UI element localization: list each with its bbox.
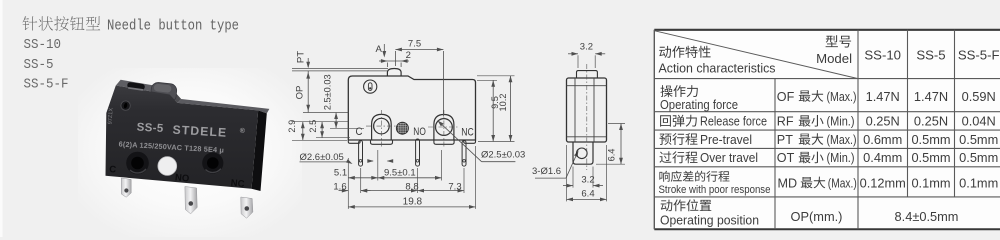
svg-text:3.2: 3.2	[581, 175, 594, 186]
extension lines bottom	[347, 158, 349, 209]
svg-text:97Z1X: 97Z1X	[108, 108, 115, 125]
svg-text:1.47N: 1.47N	[866, 89, 900, 104]
svg-text:SS-10: SS-10	[864, 47, 901, 62]
plunger button dome	[387, 69, 401, 76]
svg-text:Ø2.5±0.03: Ø2.5±0.03	[481, 150, 525, 161]
left mounting hole boss	[372, 114, 392, 140]
svg-text:6.4: 6.4	[607, 149, 617, 162]
svg-text:(Max.): (Max.)	[828, 176, 857, 190]
svg-text:NC: NC	[461, 126, 474, 138]
svg-text:0.5mm: 0.5mm	[959, 150, 998, 165]
svg-text:9.5±0.1: 9.5±0.1	[384, 167, 416, 178]
svg-text:(Max.): (Max.)	[827, 133, 857, 147]
svg-text:0.1mm: 0.1mm	[959, 175, 998, 190]
row 动作位置 Operating position	[661, 199, 712, 211]
svg-text:OF: OF	[777, 90, 795, 104]
right mounting hole boss	[434, 115, 454, 141]
svg-text:SS-5: SS-5	[24, 58, 54, 73]
pin C	[121, 178, 131, 197]
svg-text:0.6mm: 0.6mm	[863, 132, 902, 147]
side centerline	[586, 64, 588, 170]
svg-text:SS-10: SS-10	[24, 38, 62, 53]
svg-text:RF: RF	[777, 115, 794, 129]
face marking text SS-5 STDELE	[118, 119, 245, 155]
embossed C NO NC	[109, 164, 245, 190]
svg-text:Pre-travel: Pre-travel	[700, 132, 752, 147]
svg-text:A: A	[376, 44, 383, 55]
svg-text:SS-5-F: SS-5-F	[958, 47, 1000, 62]
svg-text:C: C	[356, 126, 363, 138]
svg-text:(Max.): (Max.)	[827, 90, 857, 104]
datum hole circle B	[364, 80, 377, 93]
row 回弹力 Release force	[660, 115, 697, 127]
svg-text:Stroke with poor response: Stroke with poor response	[659, 184, 771, 196]
svg-text:Model: Model	[816, 51, 852, 66]
button top reference lines	[292, 68, 388, 70]
svg-text:Over travel: Over travel	[700, 150, 758, 165]
svg-text:C: C	[109, 164, 117, 176]
svg-text:OP: OP	[295, 86, 306, 100]
switch front face	[106, 86, 259, 189]
side bottom tab	[573, 142, 593, 164]
datum hole on face	[121, 101, 130, 110]
svg-text:0.59N: 0.59N	[962, 89, 996, 104]
svg-text:SS-5: SS-5	[136, 121, 164, 135]
row 预行程 Pre-travel	[660, 133, 698, 145]
svg-text:6.4: 6.4	[581, 189, 594, 200]
svg-text:NO: NO	[413, 126, 426, 138]
product photo light background	[78, 68, 302, 237]
svg-text:0.25N: 0.25N	[914, 114, 948, 129]
svg-text:0.5mm: 0.5mm	[911, 150, 950, 165]
side tab hole	[577, 148, 588, 159]
svg-text:0.5mm: 0.5mm	[911, 132, 950, 147]
svg-text:PT: PT	[777, 133, 793, 147]
svg-text:Needle button type: Needle button type	[107, 19, 239, 35]
table borders	[654, 29, 1000, 31]
svg-text:(Min.): (Min.)	[827, 151, 855, 165]
top slot	[127, 82, 145, 91]
side inner lines	[574, 78, 576, 142]
hatched circle	[396, 122, 408, 134]
svg-text:OT: OT	[777, 151, 795, 165]
svg-text:SS-5: SS-5	[916, 47, 945, 62]
svg-text:0.04N: 0.04N	[962, 114, 996, 129]
button plunger	[150, 82, 177, 103]
switch top face high section	[116, 80, 173, 95]
right hole	[202, 152, 223, 173]
pin NO	[416, 139, 420, 166]
row 操作力 Operating force	[661, 85, 698, 97]
pin NC	[462, 141, 466, 167]
svg-text:0.12mm: 0.12mm	[860, 175, 906, 190]
svg-text:SS-5-F: SS-5-F	[24, 78, 69, 93]
header 动作特性 Action characteristics	[659, 46, 710, 58]
svg-text:Operating force: Operating force	[660, 97, 738, 112]
svg-text:5.1: 5.1	[334, 167, 347, 178]
svg-text:0.5mm: 0.5mm	[959, 132, 998, 147]
svg-text:7.5: 7.5	[408, 39, 421, 50]
svg-text:NC: NC	[230, 178, 245, 190]
table background	[654, 30, 1000, 229]
row 过行程 Over travel	[660, 151, 698, 163]
svg-text:0.25N: 0.25N	[866, 114, 900, 129]
svg-text:3-Ø1.6: 3-Ø1.6	[532, 166, 561, 177]
row 响应差的行程 Stroke with poor response	[659, 171, 729, 182]
centerlines	[366, 125, 397, 127]
svg-text:NO: NO	[175, 172, 190, 184]
front view body outline	[348, 76, 475, 140]
svg-text:Ø2.6±0.05: Ø2.6±0.05	[300, 152, 344, 163]
svg-text:0.4mm: 0.4mm	[863, 150, 902, 165]
pin NO	[185, 187, 197, 214]
left hole	[126, 152, 149, 175]
bottom tabs	[348, 140, 360, 143]
svg-text:2.5±0.03: 2.5±0.03	[323, 74, 333, 110]
switch step face	[170, 91, 182, 103]
title Chinese 针状按钮型	[23, 16, 101, 30]
svg-text:Action characteristics: Action characteristics	[659, 61, 776, 76]
side view body	[567, 78, 607, 142]
svg-text:Release force: Release force	[700, 114, 767, 129]
header 型号 Model	[826, 35, 852, 47]
svg-text:0.1mm: 0.1mm	[911, 175, 950, 190]
svg-text:8.4±0.5mm: 8.4±0.5mm	[895, 209, 959, 224]
header diagonal	[655, 31, 858, 79]
small gap arrows	[368, 160, 373, 162]
svg-text:1.47N: 1.47N	[914, 89, 948, 104]
side view button	[577, 71, 598, 78]
svg-text:2: 2	[406, 50, 411, 61]
svg-text:PT: PT	[296, 51, 307, 63]
svg-text:(Min.): (Min.)	[827, 115, 855, 129]
switch right side face	[252, 110, 267, 191]
svg-text:OP(mm.): OP(mm.)	[791, 209, 843, 224]
svg-text:Operating position: Operating position	[660, 213, 759, 228]
svg-text:19.8: 19.8	[403, 197, 423, 208]
svg-text:10.2: 10.2	[498, 94, 508, 112]
switch lower top band	[178, 99, 270, 113]
pin NC	[241, 197, 253, 218]
pin C	[359, 141, 363, 167]
svg-text:3.2: 3.2	[580, 42, 593, 53]
white circle	[158, 157, 177, 176]
svg-text:MD: MD	[778, 176, 798, 190]
